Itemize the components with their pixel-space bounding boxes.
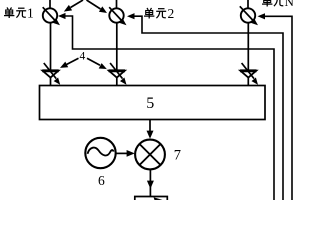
wire unitN down to combiner bbox=[247, 23, 249, 86]
combiner box 5 bbox=[40, 86, 266, 120]
node 2 pointer arrow to unit1 bbox=[64, 0, 83, 12]
wire antenna feed above unit1 bbox=[49, 0, 51, 8]
svg-text:4: 4 bbox=[80, 51, 86, 63]
wire control line into unitN bbox=[261, 16, 292, 200]
mixer 7 bbox=[135, 140, 165, 170]
phase shifter 2 (unit 2) bbox=[109, 7, 126, 25]
wire control line into unit1 bbox=[62, 16, 274, 200]
arrowhead control unit2 bbox=[127, 13, 135, 19]
phase shifter N (unit N) bbox=[240, 6, 258, 25]
label unit2 text bbox=[144, 8, 166, 19]
wire mixer to processor with arrow bbox=[147, 170, 154, 196]
svg-text:1: 1 bbox=[27, 5, 34, 20]
wire antenna feed above unitN bbox=[247, 0, 249, 8]
variable gain amp 2 bbox=[109, 63, 127, 85]
label unit1 text bbox=[4, 7, 26, 18]
label 4 pointer arrow to amp1 bbox=[60, 58, 79, 68]
label unitN text (cut off at top) bbox=[262, 0, 284, 7]
wire antenna feed above unit2 bbox=[116, 0, 118, 8]
wire combiner to mixer with arrow bbox=[147, 120, 154, 139]
svg-text:7: 7 bbox=[174, 148, 181, 164]
variable gain amp 1 bbox=[42, 63, 60, 85]
label 4 pointer arrow to amp2 bbox=[87, 58, 107, 69]
wire control line into unit2 bbox=[131, 16, 283, 200]
local oscillator 6 bbox=[85, 138, 115, 168]
wire unit1 down to combiner bbox=[50, 23, 52, 86]
node 2 pointer arrow to unit2 bbox=[87, 0, 108, 13]
svg-text:2: 2 bbox=[168, 6, 175, 21]
processor box (cut off at bottom) bbox=[135, 197, 168, 201]
svg-text:5: 5 bbox=[146, 95, 154, 112]
arrowhead control unit1 bbox=[58, 13, 66, 19]
arrowhead control unitN bbox=[258, 13, 266, 19]
phase shifter 1 (unit 1) bbox=[43, 7, 60, 25]
svg-text:N: N bbox=[285, 0, 295, 9]
svg-text:6: 6 bbox=[98, 173, 105, 188]
wire oscillator to mixer with arrow bbox=[116, 150, 135, 157]
variable gain amp N bbox=[240, 63, 258, 85]
wire unit2 down to combiner bbox=[116, 23, 118, 86]
mark inside processor box bbox=[154, 197, 163, 200]
